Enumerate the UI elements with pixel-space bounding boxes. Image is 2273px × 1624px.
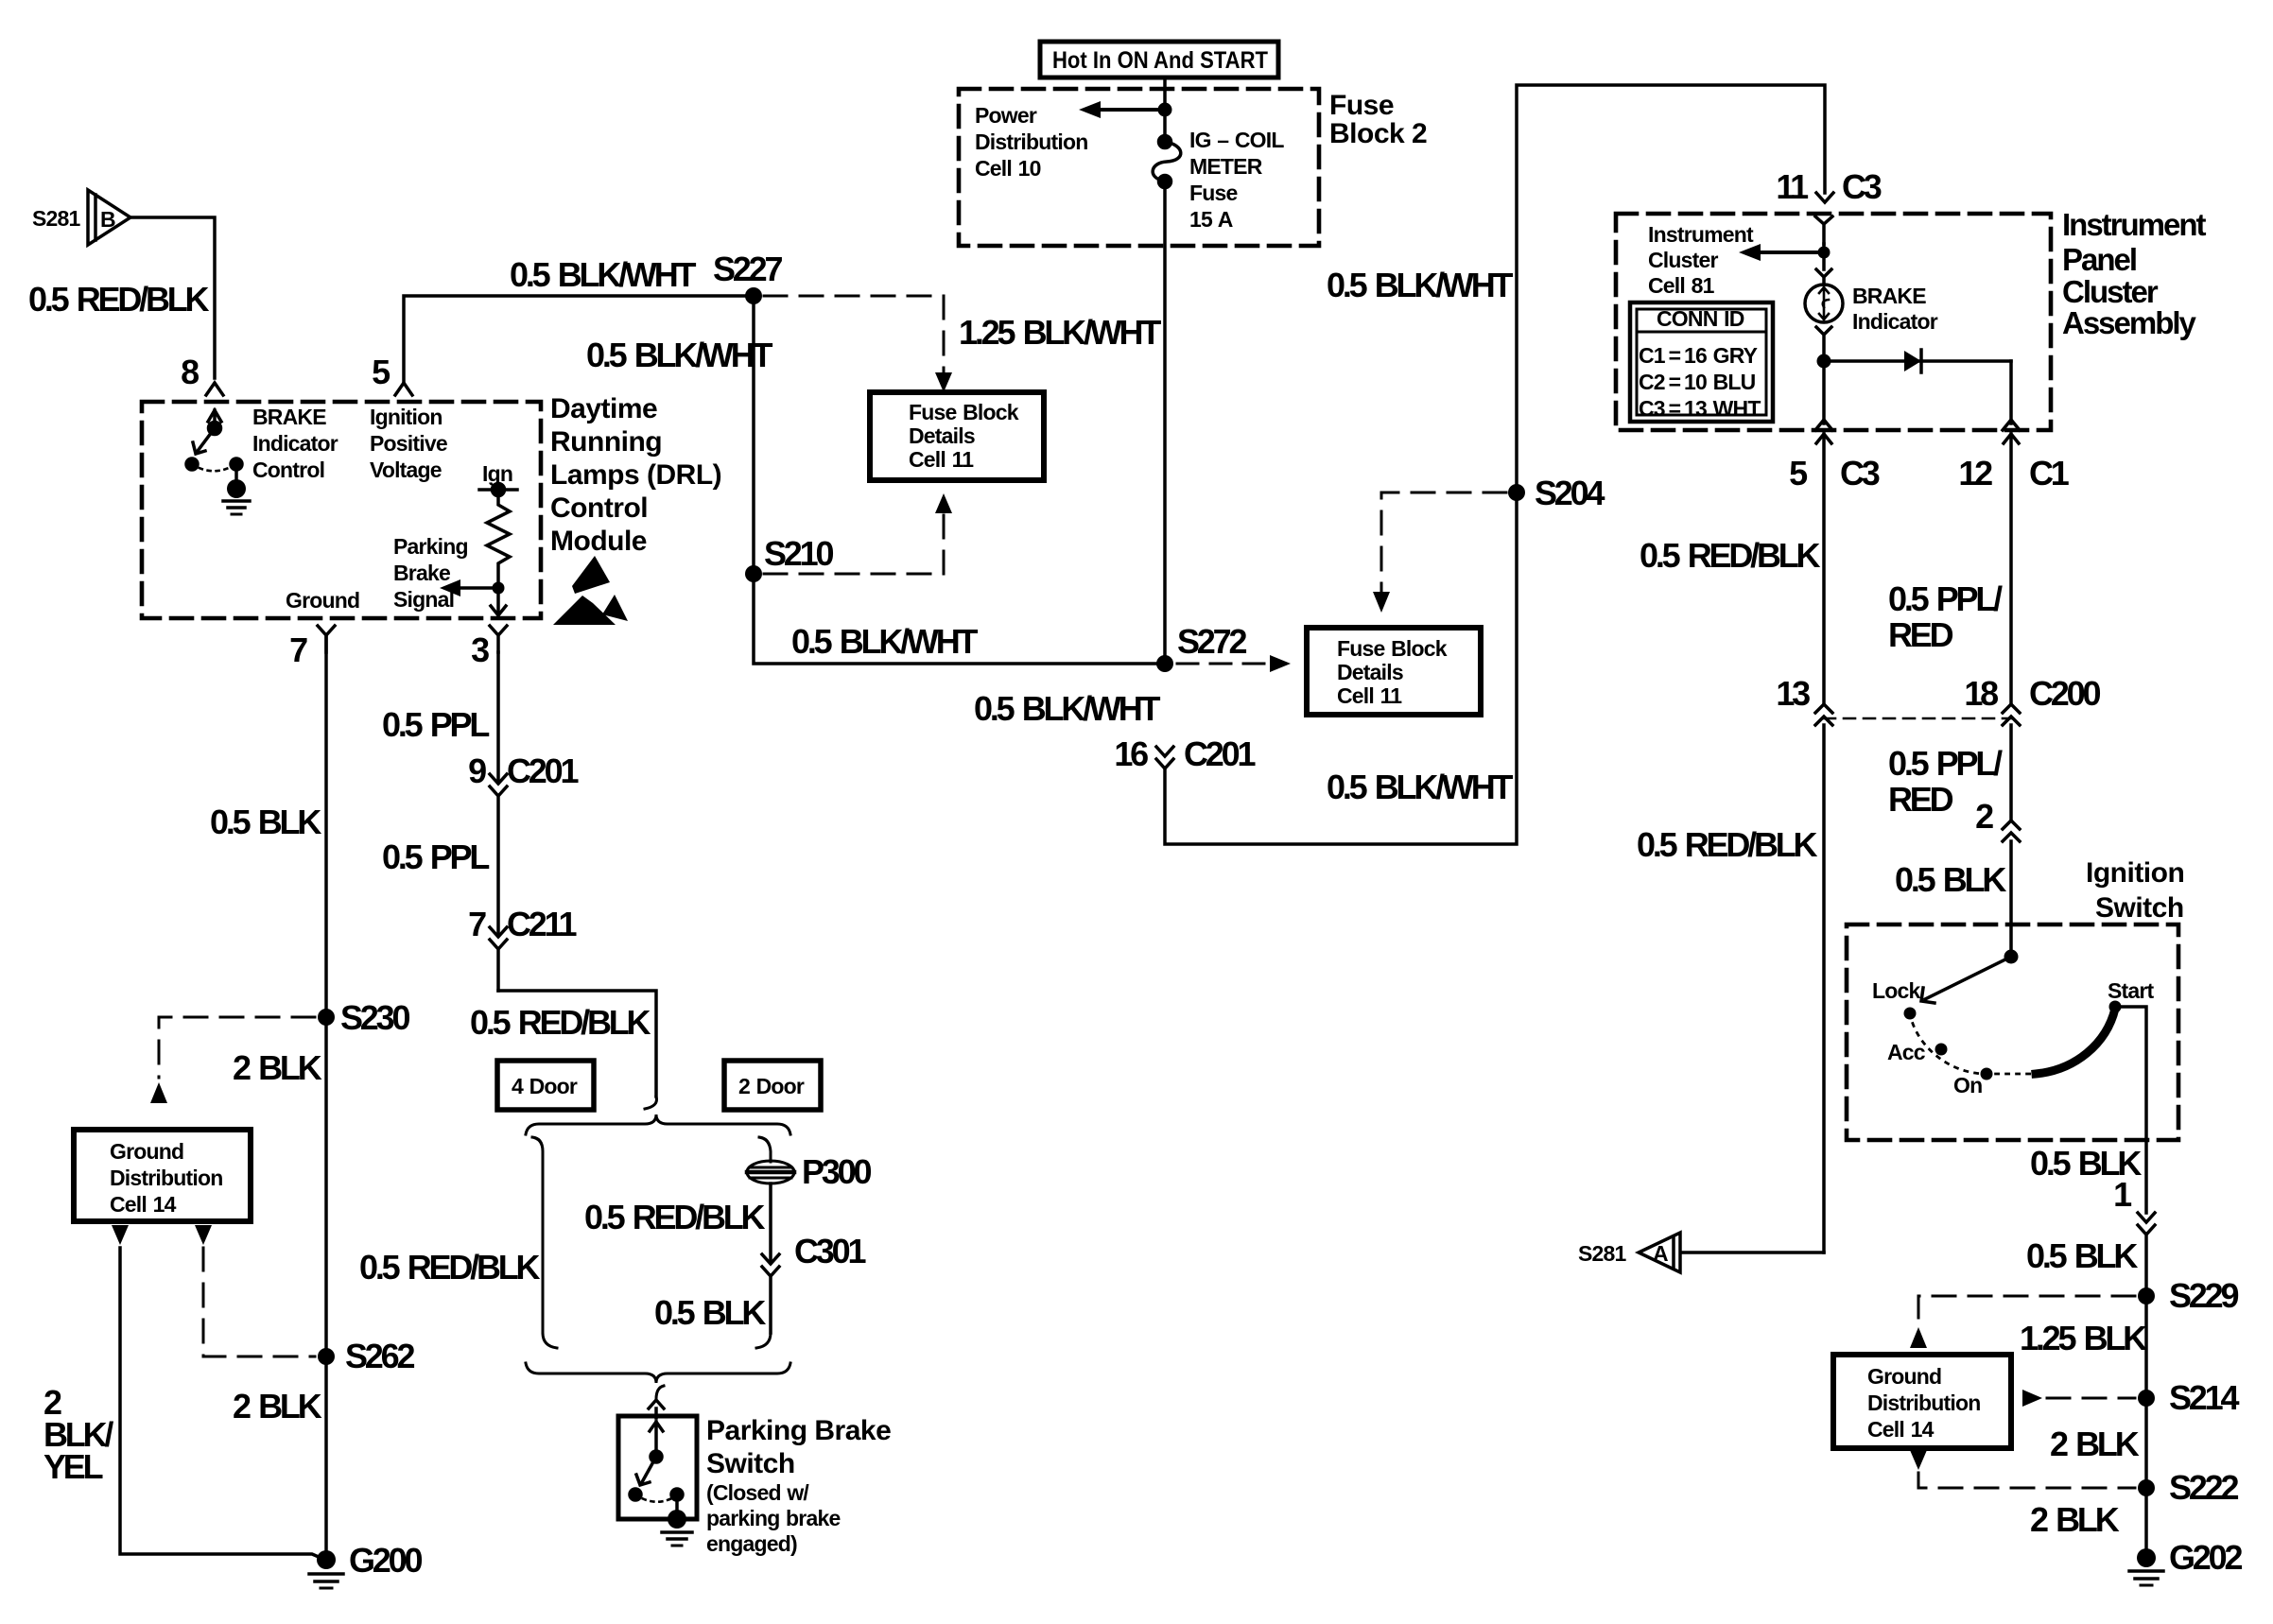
svg-text:0.5 BLK/WHT: 0.5 BLK/WHT (791, 622, 979, 661)
svg-text:1.25 BLK/WHT: 1.25 BLK/WHT (959, 313, 1161, 352)
svg-text:S227: S227 (713, 250, 782, 288)
svg-text:Lock: Lock (1872, 978, 1920, 1003)
box Fuse Block Details Cell 11 (lower) (1307, 628, 1481, 715)
svg-text:BRAKE: BRAKE (252, 405, 326, 429)
svg-text:S204: S204 (1535, 474, 1605, 512)
svg-text:3: 3 (471, 631, 489, 669)
ignition switch dashed box (1847, 924, 2178, 1140)
svg-text:0.5 RED/BLK: 0.5 RED/BLK (584, 1198, 766, 1236)
pin 7 connector (318, 626, 335, 652)
svg-text:G200: G200 (349, 1541, 422, 1580)
arrow down (right, dashed path) (195, 1225, 212, 1245)
svg-text:2 Door: 2 Door (738, 1074, 805, 1098)
dashed link S204 to Fuse Block Details (lower) (1381, 492, 1506, 591)
wire fuse feed vertical (1163, 78, 1167, 141)
arrow right (Ground Distribution side) (2022, 1390, 2042, 1407)
connector 1 (2138, 1213, 2155, 1296)
wire 2-door branch upper (759, 1137, 771, 1162)
box 4 Door (497, 1061, 594, 1110)
node S204 (1508, 484, 1525, 501)
svg-text:C3: C3 (1842, 167, 1882, 206)
svg-text:Parking: Parking (393, 534, 468, 559)
box 2 Door (724, 1061, 821, 1110)
svg-text:Ground: Ground (1867, 1364, 1941, 1389)
wire pin 7 to G200 (324, 635, 328, 1558)
node Ign terminal (479, 484, 517, 496)
connector S281 B (off-page triangle) (88, 190, 130, 245)
svg-text:Voltage: Voltage (370, 458, 442, 482)
box Fuse Block Details Cell 11 (upper) (870, 392, 1044, 480)
resistor (parking brake signal pull-up) (487, 490, 510, 582)
arrow into Fuse Block Details (from S204) (1373, 592, 1390, 613)
svg-text:engaged): engaged) (706, 1531, 797, 1556)
svg-text:2 BLK: 2 BLK (233, 1048, 322, 1087)
svg-text:0.5 BLK: 0.5 BLK (654, 1293, 766, 1332)
svg-text:Fuse: Fuse (1329, 90, 1394, 121)
node fuse feed junction (1158, 103, 1172, 117)
arrow down (left, solid path) (112, 1225, 129, 1245)
svg-text:2 BLK: 2 BLK (233, 1387, 322, 1425)
svg-text:16: 16 (1114, 734, 1148, 773)
svg-text:Panel: Panel (2062, 242, 2136, 277)
pin 12 up-arrow and wire (2004, 434, 2019, 704)
svg-text:7: 7 (468, 905, 486, 943)
svg-text:Control: Control (252, 458, 324, 482)
wire to S281 A (1682, 1251, 1824, 1254)
box Parking Brake Switch (618, 1416, 697, 1519)
svg-text:RED: RED (1888, 780, 1953, 819)
svg-text:Fuse Block: Fuse Block (1337, 636, 1448, 661)
wire from S281 B to pin 8 (130, 217, 215, 378)
svg-text:1.25 BLK: 1.25 BLK (2020, 1319, 2147, 1357)
svg-text:Brake: Brake (393, 561, 450, 585)
dashed link to S222 (1918, 1473, 2135, 1488)
svg-text:Distribution: Distribution (1867, 1391, 1980, 1415)
node S210 (745, 565, 762, 582)
node parking brake signal junction (493, 582, 505, 595)
svg-text:Cell 81: Cell 81 (1648, 273, 1715, 298)
svg-text:B: B (100, 207, 115, 232)
wire S229 to G202 (2144, 1296, 2148, 1558)
svg-text:C200: C200 (2029, 674, 2100, 713)
svg-text:0.5 BLK/WHT: 0.5 BLK/WHT (586, 336, 773, 374)
connector C301 (762, 1254, 779, 1333)
brace (top, alternatives) (526, 1114, 790, 1134)
svg-text:S262: S262 (345, 1337, 414, 1375)
arrow to Instrument Cluster (1739, 244, 1831, 261)
svg-text:Details: Details (909, 423, 975, 448)
svg-text:C3: C3 (1840, 454, 1880, 492)
dashed link to S262 (203, 1248, 315, 1356)
dashed arrow S272 to Fuse Block Details (lower) (1177, 655, 1291, 672)
svg-text:7: 7 (289, 631, 307, 669)
svg-text:Block 2: Block 2 (1329, 118, 1427, 149)
svg-text:Module: Module (550, 526, 647, 557)
pin 8 connector (206, 383, 223, 428)
connector C200 pin 13 (1815, 704, 1832, 1253)
svg-text:Ignition: Ignition (370, 405, 442, 429)
svg-text:0.5 PPL/: 0.5 PPL/ (1888, 579, 2003, 618)
svg-text:parking brake: parking brake (706, 1506, 840, 1530)
svg-text:Cluster: Cluster (2062, 274, 2159, 309)
lamp BRAKE Indicator (1805, 285, 1843, 322)
svg-text:C1: C1 (2029, 454, 2070, 492)
wire diode to pin 12 (2009, 361, 2013, 423)
svg-text:4 Door: 4 Door (512, 1074, 578, 1098)
wire hook above brace (645, 1097, 657, 1109)
svg-text:Ground: Ground (286, 588, 359, 613)
svg-text:YEL: YEL (43, 1447, 103, 1486)
svg-text:0.5 BLK/WHT: 0.5 BLK/WHT (510, 255, 697, 294)
node S272 (1156, 655, 1173, 672)
dashed link S230 to Ground Distribution (159, 1017, 315, 1078)
diode (to pin 12) (1824, 350, 2011, 372)
svg-text:CONN ID: CONN ID (1657, 306, 1744, 331)
svg-text:2 BLK: 2 BLK (2030, 1500, 2120, 1539)
pass-through grommet P300 (747, 1161, 794, 1183)
connector 2 (ignition switch) (2003, 821, 2020, 957)
parking brake switch contacts (630, 1422, 683, 1514)
svg-text:9: 9 (468, 752, 486, 790)
connector C211 pin 7 (490, 927, 507, 991)
svg-text:S229: S229 (2169, 1276, 2238, 1315)
svg-text:C211: C211 (507, 905, 577, 943)
svg-text:0.5 BLK: 0.5 BLK (210, 803, 321, 841)
fuse IG-COIL METER 15A (1153, 136, 1181, 188)
svg-text:Parking Brake: Parking Brake (706, 1415, 891, 1446)
svg-text:0.5 BLK/WHT: 0.5 BLK/WHT (1327, 266, 1514, 304)
arrow down (Ground Distribution bottom) (1910, 1450, 1927, 1470)
arrow Parking Brake Signal (440, 579, 498, 596)
node S229 (2138, 1287, 2155, 1304)
node S230 (318, 1009, 335, 1026)
svg-text:Switch: Switch (2095, 892, 2184, 924)
ground G202 (2129, 1548, 2163, 1585)
svg-text:Cell 14: Cell 14 (110, 1192, 177, 1217)
svg-text:Signal: Signal (393, 587, 454, 612)
node S222 (2138, 1479, 2155, 1496)
svg-text:Switch: Switch (706, 1448, 795, 1479)
svg-text:Distribution: Distribution (110, 1166, 222, 1190)
svg-text:G202: G202 (2169, 1538, 2242, 1577)
wire 4-door branch (532, 1137, 557, 1348)
svg-text:0.5 PPL: 0.5 PPL (382, 838, 489, 876)
box CONN ID (1630, 302, 1773, 422)
svg-text:Cell 11: Cell 11 (1337, 683, 1402, 708)
svg-text:Cell 11: Cell 11 (909, 447, 974, 472)
dashed link S229 to Ground Distribution (1918, 1296, 2135, 1323)
dashed link C200 (1824, 717, 2011, 720)
svg-text:C2 = 10 BLU: C2 = 10 BLU (1639, 370, 1756, 394)
node S214 (2138, 1390, 2155, 1407)
svg-text:Ignition: Ignition (2086, 857, 2184, 889)
dashed link to S214 (2047, 1397, 2135, 1400)
contact Acc (1935, 1044, 1948, 1056)
svg-text:IG – COIL: IG – COIL (1189, 128, 1284, 152)
connector S281 A (off-page triangle) (1639, 1233, 1680, 1272)
svg-text:2: 2 (1975, 797, 1993, 836)
svg-text:0.5 BLK: 0.5 BLK (1895, 860, 2006, 899)
svg-text:Instrument: Instrument (2062, 207, 2207, 242)
node S262 (318, 1348, 335, 1365)
svg-text:Control: Control (550, 492, 648, 524)
arrow into Fuse Block Details (from S210) (935, 493, 952, 513)
connector into parking brake switch (649, 1386, 664, 1418)
svg-text:8: 8 (181, 353, 199, 391)
node ignition switch pivot (2004, 950, 2019, 964)
svg-text:0.5 BLK: 0.5 BLK (2026, 1236, 2138, 1275)
svg-text:S281: S281 (1578, 1241, 1627, 1266)
ignition switch arm (to Lock) (1921, 957, 2011, 1003)
svg-text:Distribution: Distribution (975, 130, 1087, 154)
svg-text:11: 11 (1776, 167, 1809, 206)
wire to brake indicator bulb (1816, 244, 1831, 285)
fuse block 2 dashed box (959, 89, 1319, 246)
box Hot In ON And START (1040, 42, 1278, 78)
svg-text:Hot In ON And START: Hot In ON And START (1052, 47, 1268, 74)
svg-text:2 BLK: 2 BLK (2050, 1425, 2140, 1463)
dashed link S227 to Fuse Block Details (764, 296, 944, 378)
svg-text:0.5 PPL/: 0.5 PPL/ (1888, 744, 2003, 783)
wire C201-16 to instrument cluster pin 11 (1165, 85, 1825, 844)
arrow up (Ground Distribution top) (1910, 1327, 1927, 1348)
svg-text:12: 12 (1958, 454, 1992, 492)
brace (bottom, alternatives) (526, 1363, 790, 1383)
ground (parking brake switch) (662, 1510, 692, 1546)
svg-text:Start: Start (2108, 978, 2155, 1003)
svg-text:13: 13 (1776, 674, 1810, 713)
svg-text:18: 18 (1964, 674, 1998, 713)
svg-text:Fuse: Fuse (1189, 181, 1237, 205)
arrow into Fuse Block Details (from S227) (935, 372, 952, 392)
svg-text:Running: Running (550, 426, 662, 458)
thick arc On-Start (2036, 1009, 2115, 1074)
pin 3 connector (490, 626, 507, 652)
pin 5 connector (395, 383, 412, 395)
svg-text:0.5 RED/BLK: 0.5 RED/BLK (1640, 536, 1821, 575)
svg-text:C1 = 16 GRY: C1 = 16 GRY (1639, 343, 1758, 368)
svg-text:Cell 14: Cell 14 (1867, 1417, 1935, 1442)
box Ground Distribution Cell 14 (left) (74, 1130, 251, 1221)
pin 5 up-arrow and wire (1816, 434, 1831, 704)
dashed link S210 to Fuse Block Details (764, 510, 944, 574)
ESD static-sensitive symbol (553, 556, 628, 625)
svg-text:METER: METER (1189, 154, 1263, 179)
svg-text:On: On (1953, 1073, 1982, 1097)
svg-text:S281: S281 (32, 206, 81, 231)
svg-text:0.5 RED/BLK: 0.5 RED/BLK (28, 280, 210, 319)
contact Start (2109, 1001, 2122, 1013)
svg-text:Indicator: Indicator (1852, 309, 1938, 334)
svg-text:Acc: Acc (1887, 1040, 1926, 1064)
svg-text:P300: P300 (802, 1152, 871, 1191)
wire C211 to door branch (498, 991, 656, 1097)
svg-text:A: A (1653, 1241, 1668, 1266)
svg-text:Details: Details (1337, 660, 1403, 684)
svg-text:Cell 10: Cell 10 (975, 156, 1041, 181)
svg-text:C301: C301 (794, 1232, 866, 1270)
arrow to Power Distribution (1079, 101, 1165, 118)
box Ground Distribution Cell 14 (right) (1833, 1355, 2011, 1448)
svg-text:Assembly: Assembly (2062, 305, 2197, 340)
svg-text:Cluster: Cluster (1648, 248, 1718, 272)
svg-text:Indicator: Indicator (252, 431, 338, 456)
pin 5 socket at box bottom (1815, 420, 1832, 430)
pin 11 socket (1815, 216, 1832, 244)
svg-text:(Closed w/: (Closed w/ (706, 1480, 809, 1505)
wire Start to pin 1 (2115, 1007, 2146, 1213)
svg-text:0.5 RED/BLK: 0.5 RED/BLK (470, 1003, 651, 1042)
svg-text:S230: S230 (340, 998, 409, 1037)
pin 12 socket at box bottom (2003, 420, 2020, 430)
connector C200 pin 18 (2003, 704, 2020, 821)
svg-text:S272: S272 (1177, 622, 1246, 661)
svg-text:0.5 RED/BLK: 0.5 RED/BLK (359, 1248, 541, 1287)
wire bulb to diode junction (1816, 327, 1831, 423)
svg-text:Power: Power (975, 103, 1037, 128)
wire S227 vertical to S272 horizontal (754, 296, 1165, 664)
wire 2 BLK/YEL to G200 (120, 1248, 325, 1560)
connector C201 pin 9 (490, 652, 507, 936)
svg-text:BRAKE: BRAKE (1852, 284, 1926, 308)
wire fuse to S272 (1163, 181, 1167, 664)
ground G200 (309, 1550, 343, 1588)
wire 2-door branch lower hook (756, 1333, 771, 1348)
wire junction to pin 3 (491, 588, 506, 615)
svg-text:Ground: Ground (110, 1139, 183, 1164)
svg-text:0.5 BLK/WHT: 0.5 BLK/WHT (1327, 768, 1514, 806)
wire pin 5 to S227 (404, 296, 754, 383)
DRL control module dashed box (142, 402, 541, 618)
svg-text:Instrument: Instrument (1648, 222, 1754, 247)
svg-text:S210: S210 (764, 534, 833, 573)
svg-text:S214: S214 (2169, 1378, 2239, 1417)
svg-text:RED: RED (1888, 615, 1953, 654)
pin 11 arrow into instrument cluster (1816, 193, 1833, 202)
contact Lock (1904, 1008, 1917, 1020)
svg-text:15 A: 15 A (1189, 207, 1233, 232)
node S227 (745, 287, 762, 304)
svg-text:0.5 BLK/WHT: 0.5 BLK/WHT (974, 689, 1161, 728)
node diode junction (1817, 354, 1831, 369)
connector C201 pin 16 (1156, 747, 1173, 769)
svg-text:0.5 RED/BLK: 0.5 RED/BLK (1637, 825, 1818, 864)
arrow up (Ground Distribution left top) (150, 1082, 167, 1103)
dotted detent arc Lock-Acc-On (1910, 1013, 2036, 1074)
svg-text:Positive: Positive (370, 431, 447, 456)
wire P300 to C301 (769, 1183, 772, 1263)
BRAKE Indicator Control switch arm (186, 423, 242, 485)
instrument panel cluster assembly dashed box (1616, 214, 2051, 430)
svg-text:C3 = 13 WHT: C3 = 13 WHT (1639, 396, 1761, 421)
svg-text:S222: S222 (2169, 1468, 2238, 1507)
ground (inside BRAKE Indicator Control) (223, 479, 250, 514)
svg-text:Lamps (DRL): Lamps (DRL) (550, 459, 721, 491)
svg-text:Fuse Block: Fuse Block (909, 400, 1019, 424)
svg-text:0.5 PPL: 0.5 PPL (382, 705, 489, 744)
svg-text:C201: C201 (1184, 734, 1256, 773)
contact On (1981, 1068, 1993, 1080)
svg-text:Daytime: Daytime (550, 393, 657, 424)
svg-text:C201: C201 (507, 752, 579, 790)
